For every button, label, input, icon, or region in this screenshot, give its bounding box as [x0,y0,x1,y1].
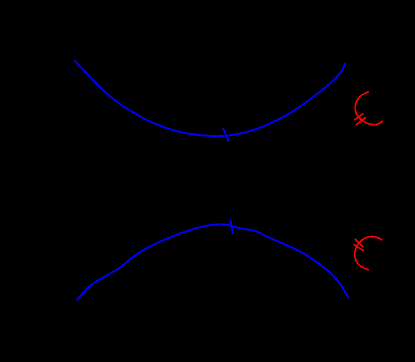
hyperbola branch bottom (blue, concave down) [77,224,348,300]
double hatch on top circle [355,114,364,120]
tick mark on top branch [223,129,228,141]
double hatch on bottom circle [356,240,363,247]
tick mark on bottom branch [230,221,233,234]
red open circle top (focus mark) [355,92,382,125]
red open circle bottom (focus mark) [355,237,382,270]
hyperbola branch top (blue, concave up) [75,61,345,136]
